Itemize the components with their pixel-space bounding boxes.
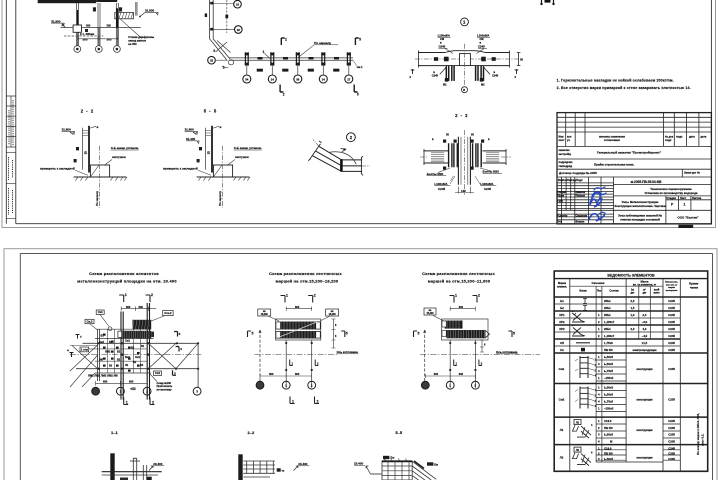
dark mark below title block (678, 225, 693, 228)
svg-text:подп: подп (676, 136, 683, 139)
svg-text:Иванов: Иванов (576, 190, 586, 194)
svg-text:См1: См1 (125, 340, 131, 343)
svg-text:Ь,50x5: Ь,50x5 (604, 457, 613, 461)
svg-text:С245: С245 (668, 320, 675, 324)
svg-text:20.400: 20.400 (298, 462, 308, 466)
svg-text:ние или от: ние или от (666, 284, 678, 286)
svg-text:14: 14 (322, 77, 326, 81)
svg-text:600: 600 (126, 305, 131, 309)
svg-text:Б: Б (84, 150, 87, 155)
svg-text:в(Д): в(Д) (130, 386, 135, 390)
svg-text:17: 17 (347, 77, 351, 81)
svg-text:2,0: 2,0 (643, 313, 647, 317)
svg-text:5: 5 (418, 332, 420, 336)
svg-text:С235: С235 (668, 457, 675, 461)
svg-text:600: 600 (139, 305, 144, 309)
svg-text:СМ: СМ (480, 37, 484, 41)
drawing B: bent plan with grid bubbles (205, 0, 363, 97)
svg-text:140: 140 (461, 189, 466, 193)
svg-text:СМ: СМ (440, 37, 444, 41)
svg-text:Л1: Л1 (560, 428, 564, 432)
sheet 1 left margin attachment table (6, 96, 16, 218)
svg-text:300: 300 (86, 24, 91, 28)
svg-text:конструкция: конструкция (636, 368, 653, 371)
svg-text:конструкция: конструкция (636, 429, 653, 432)
svg-text:С245: С245 (438, 187, 446, 191)
svg-text:С245: С245 (439, 45, 446, 49)
table row data (559, 299, 676, 466)
svg-text:4,0: 4,0 (643, 327, 647, 331)
svg-text:5: 5 (513, 332, 515, 336)
svg-text:всего: всего (653, 293, 660, 295)
svg-text:Бм: Бм (434, 462, 438, 466)
bottom section titles (111, 430, 403, 435)
svg-text:600: 600 (459, 372, 464, 376)
svg-text:Б1: Б1 (560, 299, 564, 303)
svg-text:С235: С235 (668, 452, 675, 456)
svg-text:материала: материала (666, 290, 678, 292)
sheet 2 elements table (Vedomost elementov) (554, 271, 708, 471)
svg-text:КР1: КР1 (559, 313, 565, 317)
svg-text:лист 0.2.: лист 0.2. (701, 434, 705, 446)
svg-text:дата: дата (689, 136, 695, 139)
blue signatures (589, 187, 606, 221)
svg-text:2. Все отверстия марки приварк: 2. Все отверстия марки приваркой к стене… (557, 86, 691, 90)
svg-text:L,75x6: L,75x6 (604, 341, 613, 345)
svg-text:КР2: КР2 (559, 320, 565, 324)
svg-text:заглушки: заглушки (235, 155, 249, 159)
svg-text:подп: подп (665, 139, 672, 142)
svg-text:ПВ 5/0: ПВ 5/0 (604, 348, 613, 352)
svg-text:застройщ: застройщ (559, 152, 572, 156)
svg-text:1,0: 1,0 (631, 313, 635, 317)
svg-text:300: 300 (107, 37, 112, 41)
svg-text:По зеркалу: По зеркалу (218, 191, 222, 206)
svg-text:См1: См1 (559, 367, 565, 371)
svg-text:Ось котлована: Ось котлована (337, 350, 359, 354)
svg-text:600: 600 (459, 305, 464, 309)
svg-text:СП: СП (560, 341, 564, 345)
svg-text:30: 30 (520, 58, 524, 62)
svg-text:Схема расположения лестничных: Схема расположения лестничных (422, 271, 495, 276)
svg-text:Петров: Петров (576, 194, 586, 198)
svg-text:15,200: 15,200 (426, 313, 434, 315)
svg-text:конструкция: конструкция (636, 457, 653, 460)
svg-text:1,5: 1,5 (631, 306, 635, 310)
svg-text:С235: С235 (668, 433, 675, 437)
detail 1: circled 1 wall bracket (410, 18, 524, 93)
svg-text:1: 1 (126, 401, 128, 405)
svg-text:25Б1: 25Б1 (604, 306, 611, 310)
svg-text:С245: С245 (668, 299, 675, 303)
svg-text:Состав: Состав (609, 289, 619, 293)
svg-text:14: 14 (271, 77, 275, 81)
svg-text:Ось котлована: Ось котлована (496, 350, 518, 354)
svg-text:СхЗ: СхЗ (98, 310, 103, 314)
svg-text:5: 5 (346, 332, 348, 336)
svg-text:С245: С245 (492, 74, 499, 78)
svg-text:Бм2: Бм2 (125, 356, 131, 359)
svg-text:С245: С245 (432, 74, 439, 78)
svg-text:ПВ 5/0: ПВ 5/0 (604, 426, 613, 430)
svg-text:в: в (220, 125, 222, 129)
top-right M mark (540, 0, 554, 5)
svg-text:Т: Т (80, 335, 82, 339)
bottom section 5-5 (354, 456, 438, 480)
svg-text:С245: С245 (668, 327, 675, 331)
svg-text:м-2005-ПВ.05.04-КМ: м-2005-ПВ.05.04-КМ (631, 180, 662, 184)
svg-text:31.800: 31.800 (51, 19, 61, 23)
svg-text:1м: 1м (631, 290, 634, 292)
svg-text:Стадия: Стадия (667, 196, 677, 200)
svg-text:Ь,50x5: Ь,50x5 (604, 393, 613, 397)
scheme 3 stairs 15.2-11.0 (414, 294, 541, 390)
svg-text:С245: С245 (668, 334, 675, 338)
svg-text:приварить к закладной: приварить к закладной (40, 166, 75, 170)
svg-text:25Б1: 25Б1 (604, 327, 611, 331)
svg-text:отметки площадки составной: отметки площадки составной (620, 217, 660, 221)
svg-text:Болты М20: Болты М20 (483, 170, 500, 174)
svg-text:С235: С235 (668, 440, 675, 444)
svg-text:генподряд: генподряд (559, 165, 573, 168)
svg-text:Бм2: Бм2 (99, 341, 105, 344)
scheme 2 stairs 15.2-18.2 (248, 294, 359, 404)
svg-text:ЛМ: ЛМ (99, 359, 103, 362)
svg-text:300: 300 (107, 24, 112, 28)
sheet 2 bottom drawing sheet (4, 249, 717, 480)
svg-text:2: 2 (285, 38, 287, 42)
svg-text:2: 2 (317, 400, 319, 404)
svg-text:в: в (97, 125, 99, 129)
svg-text:дата: дата (701, 136, 707, 139)
svg-text:Ь,50x5: Ь,50x5 (604, 433, 613, 437)
svg-text:Пров: Пров (558, 194, 565, 198)
svg-text:25Б1: 25Б1 (604, 299, 611, 303)
svg-text:Установка по производству водо: Установка по производству водорода (645, 191, 698, 195)
svg-text:ООО "Балтик": ООО "Балтик" (677, 215, 699, 219)
svg-text:С245: С245 (668, 419, 675, 423)
svg-text:20.400: 20.400 (153, 462, 163, 466)
svg-text:на 300: на 300 (128, 42, 137, 46)
svg-text:в: в (463, 88, 465, 92)
svg-text:Ь,50x5: Ь,50x5 (604, 386, 613, 390)
svg-text:М2: М2 (481, 83, 485, 87)
svg-text:Листов: Листов (692, 196, 702, 200)
svg-text:М1: М1 (443, 83, 447, 87)
svg-text:С245: С245 (484, 187, 492, 191)
svg-text:1: 1 (292, 400, 294, 404)
svg-text:±1,5: ±1,5 (642, 341, 648, 345)
svg-text:2.1. 300мм: 2.1. 300мм (80, 32, 94, 36)
svg-text:Эскиз: Эскиз (579, 289, 587, 293)
svg-text:1: 1 (263, 50, 265, 54)
svg-text:чание: чание (690, 286, 699, 290)
svg-text:маршей на отм.15,200–11,000: маршей на отм.15,200–11,000 (428, 278, 490, 283)
svg-text:1: 1 (125, 293, 127, 297)
svg-text:по-монтажу: по-монтажу (157, 388, 173, 391)
svg-text:600: 600 (269, 372, 274, 376)
svg-text:ВЕДОМОСТЬ ЭЛЕМЕНТОВ: ВЕДОМОСТЬ ЭЛЕМЕНТОВ (607, 273, 655, 277)
svg-text:ГИП: ГИП (558, 199, 563, 203)
scheme titles (77, 271, 495, 284)
svg-text:5 - 5: 5 - 5 (204, 108, 217, 113)
svg-text:2–2: 2–2 (248, 430, 255, 435)
svg-text:L100x8/А: L100x8/А (477, 34, 489, 38)
svg-text:С245: С245 (478, 45, 485, 49)
svg-text:Разраб: Разраб (558, 190, 567, 194)
svg-text:–150x5: –150x5 (604, 407, 614, 411)
svg-text:Схема расположения элементов: Схема расположения элементов (89, 271, 159, 276)
title block texts (558, 135, 707, 224)
sections 2-2 and 5-5 (40, 108, 139, 208)
svg-text:–4,0: –4,0 (642, 334, 648, 338)
svg-text:Марка: Марка (558, 281, 567, 285)
svg-text:600: 600 (295, 305, 300, 309)
svg-text:9: 9 (213, 49, 215, 53)
svg-text:Ь,75x5: Ь,75x5 (604, 400, 613, 404)
svg-text:Болты М20: Болты М20 (427, 172, 444, 176)
svg-text:L100x8/А: L100x8/А (438, 34, 450, 38)
svg-text:заглушки: заглушки (112, 155, 126, 159)
svg-text:С245: С245 (668, 313, 675, 317)
svg-text:электропродукция: электропродукция (633, 349, 657, 352)
svg-text:2: 2 (314, 294, 316, 298)
svg-text:600: 600 (295, 372, 300, 376)
svg-text:С16.0: С16.0 (604, 446, 612, 450)
svg-text:Узлы. Металлоконструкции: Узлы. Металлоконструкции (622, 200, 659, 204)
svg-text:2: 2 (478, 294, 480, 298)
svg-text:Изм: Изм (559, 135, 564, 139)
sheet 1 top drawing sheet (2, 0, 716, 228)
svg-text:Х-Б анкер установ.: Х-Б анкер установ. (111, 146, 139, 150)
svg-text:Бм: Бм (391, 456, 395, 460)
detail 2-2 wall section (420, 113, 511, 195)
svg-text:600: 600 (129, 380, 134, 384)
svg-text:вл. тр.элемента, кг: вл. тр.элемента, кг (633, 283, 656, 286)
svg-text:С235: С235 (668, 367, 675, 371)
svg-text:32: 32 (210, 59, 214, 63)
svg-text:1: 1 (455, 294, 457, 298)
svg-text:элемен.: элемен. (557, 286, 567, 289)
svg-text:2 - 2: 2 - 2 (455, 113, 468, 118)
svg-text:31.400: 31.400 (186, 137, 196, 141)
svg-text:2 - 2: 2 - 2 (81, 108, 94, 113)
svg-text:31.800: 31.800 (145, 9, 155, 13)
svg-text:36: 36 (296, 77, 300, 81)
svg-text:Н.контр: Н.контр (558, 214, 568, 218)
svg-text:Л2: Л2 (560, 456, 564, 460)
svg-text:L100x8/А: L100x8/А (434, 182, 448, 186)
svg-text:1: 1 (286, 294, 288, 298)
scheme 1 plan 20.400 (67, 293, 201, 405)
svg-text:С245: С245 (668, 341, 675, 345)
svg-text:–150x5: –150x5 (604, 376, 614, 380)
svg-text:Генеральный заказчик "Промстро: Генеральный заказчик "Промстройпроект" (597, 151, 662, 155)
svg-text:марки: марки (668, 287, 675, 289)
bottom section 1-1 (102, 453, 165, 480)
svg-text:С235: С235 (668, 426, 675, 430)
svg-text:согласовано: согласовано (604, 139, 621, 142)
svg-text:Утв: Утв (558, 220, 563, 224)
svg-text:маршей на отм.15,200–18,200: маршей на отм.15,200–18,200 (276, 278, 339, 283)
svg-text:Узлы публикациями заказной Na: Узлы публикациями заказной Na (618, 214, 662, 218)
svg-text:Ь,50x5: Ь,50x5 (604, 355, 613, 359)
svg-text:15.400: 15.400 (354, 462, 364, 466)
svg-text:Сечение: Сечение (592, 281, 605, 285)
svg-text:Подп: Подп (576, 178, 583, 182)
svg-text:См.2: См.2 (87, 320, 94, 324)
svg-text:2: 2 (283, 93, 285, 97)
svg-text:Прайм строительная комп.: Прайм строительная комп. (594, 162, 634, 166)
sheet 1 title block (GOST stamp) (557, 113, 711, 224)
svg-text:По эскизу марки 1.460.3–7.94,: По эскизу марки 1.460.3–7.94, (696, 413, 700, 455)
svg-text:Х-Б анкер установ.: Х-Б анкер установ. (234, 146, 262, 150)
svg-text:Фомин: Фомин (576, 220, 585, 224)
svg-text:2,0: 2,0 (631, 327, 635, 331)
svg-text:См1: См1 (135, 356, 141, 359)
svg-text:2: 2 (151, 293, 153, 297)
svg-text:1 отм: 1 отм (81, 347, 88, 351)
svg-text:См2: См2 (559, 398, 565, 402)
svg-text:всей: всей (654, 289, 660, 292)
svg-text:2,0: 2,0 (631, 299, 635, 303)
svg-text:Б: Б (207, 150, 210, 155)
svg-text:Л2: Л2 (576, 448, 580, 452)
svg-text:300: 300 (83, 37, 88, 41)
svg-text:КР2: КР2 (559, 327, 565, 331)
svg-text:Наименова-: Наименова- (665, 282, 678, 284)
svg-text:ЛМ2: ЛМ2 (105, 351, 111, 354)
svg-text:L100x8/А: L100x8/А (480, 182, 494, 186)
svg-text:5: 5 (359, 38, 361, 42)
svg-text:1. Горизонтальные накладки не: 1. Горизонтальные накладки не нейкой осл… (557, 79, 674, 83)
svg-text:С235: С235 (668, 348, 675, 352)
svg-text:По зеркалу: По зеркалу (314, 41, 331, 45)
svg-text:1–1: 1–1 (111, 430, 118, 435)
svg-text:25Б1: 25Б1 (604, 313, 611, 317)
svg-text:5: 5 (357, 93, 359, 97)
notes text sheet 1 (557, 79, 691, 91)
svg-text:Н1: Н1 (560, 348, 564, 352)
svg-text:Б2: Б2 (560, 306, 564, 310)
corner detail 2 (308, 133, 370, 176)
svg-text:Схема расположения лестничных: Схема расположения лестничных (269, 271, 342, 276)
svg-text:С245: С245 (668, 446, 675, 450)
svg-text:Заказ-дог №: Заказ-дог № (684, 170, 700, 174)
svg-text:600: 600 (434, 372, 439, 376)
svg-text:16: 16 (237, 28, 241, 32)
svg-text:Ь,50x5: Ь,50x5 (604, 362, 613, 366)
svg-text:см.1: см.1 (357, 65, 363, 69)
svg-text:приварить к закладной: приварить к закладной (163, 166, 198, 170)
svg-text:По зеркалу: По зеркалу (95, 191, 99, 206)
svg-text:С235: С235 (668, 398, 675, 402)
svg-text:10: 10 (236, 3, 240, 7)
svg-text:металлоконструкций площадки на: металлоконструкций площадки на отм. 20.4… (77, 278, 176, 283)
svg-text:34: 34 (245, 77, 249, 81)
svg-text:ЛМ1 ЛМ2 ЛМ2 ЛМ2 ЛМ: ЛМ1 ЛМ2 ЛМ2 ЛМ2 ЛМ (88, 374, 118, 378)
svg-text:L,100x7: L,100x7 (604, 334, 615, 338)
svg-text:подрядчик: подрядчик (559, 161, 574, 164)
svg-text:лист: лист (559, 139, 566, 142)
svg-text:Стенка диафрагмы: Стенка диафрагмы (128, 35, 154, 39)
svg-text:С16.0: С16.0 (604, 419, 612, 423)
svg-text:Осн.2: Осн.2 (164, 311, 172, 315)
svg-text:600: 600 (103, 380, 108, 384)
svg-text:Л1: Л1 (576, 421, 580, 425)
svg-text:С245: С245 (668, 306, 675, 310)
svg-text:31.800: 31.800 (62, 128, 72, 132)
svg-text:Конструкции металлические. Чер: Конструкции металлические. Чертежи (614, 204, 665, 208)
svg-text:1: 1 (684, 203, 686, 207)
svg-text:Сидоров: Сидоров (576, 214, 588, 218)
svg-text:–3,0: –3,0 (642, 320, 648, 324)
svg-text:L,100x7: L,100x7 (604, 320, 615, 324)
svg-text:31.800: 31.800 (185, 128, 195, 132)
svg-text:5: 5 (252, 332, 254, 336)
svg-text:заказчик: заказчик (559, 149, 571, 152)
svg-text:уч: уч (567, 139, 570, 142)
svg-text:Договор подряда №-2005: Договор подряда №-2005 (559, 171, 597, 175)
svg-text:2: 2 (152, 401, 154, 405)
svg-text:Лист: Лист (680, 196, 687, 200)
svg-text:18,200: 18,200 (261, 314, 269, 316)
svg-text:конструкция: конструкция (636, 399, 653, 402)
drawing A: partial plan top-left (38, 0, 158, 52)
svg-text:5–5: 5–5 (395, 430, 402, 435)
bottom section 2-2 (238, 454, 309, 480)
svg-text:СхЗ: СхЗ (155, 371, 160, 375)
svg-text:ПВ 5/0: ПВ 5/0 (604, 452, 613, 456)
svg-text:Ь,75x5: Ь,75x5 (604, 369, 613, 373)
